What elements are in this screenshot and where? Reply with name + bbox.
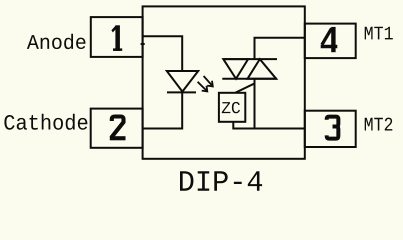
label Cathode — [4, 114, 87, 130]
label Anode — [27, 34, 86, 49]
pin 3 box — [305, 111, 356, 147]
pin 1 box — [91, 17, 143, 57]
triac gate diagonal to ZC — [236, 84, 254, 93]
triac left triangle — [223, 59, 248, 79]
wire ZC box elbow — [233, 122, 304, 129]
LED emission arrow 1 shaft — [204, 76, 213, 86]
wire triac MT2 down — [254, 79, 256, 129]
LED cathode bar — [167, 91, 196, 93]
label MT1 — [365, 27, 393, 40]
LED emission arrow 1 head — [207, 81, 213, 87]
triac top bar — [223, 58, 277, 60]
wire triac MT1 to pin 4 — [255, 38, 305, 59]
wire LED cathode to pin2 — [143, 92, 183, 128]
triac right triangle — [248, 59, 277, 79]
label ZC — [222, 102, 240, 113]
pin 4 box — [305, 24, 356, 59]
IC body U1 (DIP-4 package outline) — [143, 6, 305, 158]
pin number 2 — [110, 117, 126, 139]
ZC zero-crossing box — [219, 93, 245, 122]
label MT2 — [365, 118, 393, 131]
LED emission arrow 2 shaft — [198, 82, 208, 92]
LED D1 triangle — [167, 71, 198, 92]
pin number 1 — [111, 25, 122, 51]
LED emission arrow 2 head — [202, 86, 208, 92]
triac bottom bar — [222, 78, 277, 80]
pin number 4 — [321, 27, 338, 52]
pin 2 box — [91, 109, 143, 148]
pin number 3 — [327, 117, 339, 139]
wire pin1 to LED anode — [143, 36, 183, 71]
tick at pin1 — [141, 43, 145, 45]
label DIP-4 — [180, 171, 262, 190]
